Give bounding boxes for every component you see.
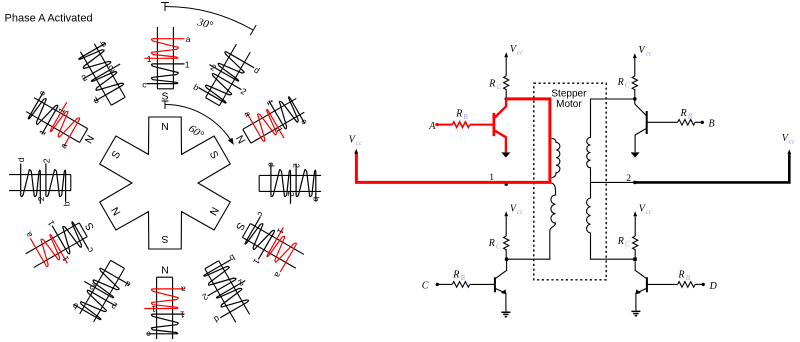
svg-text:d: d	[16, 157, 26, 162]
Vcc D	[634, 216, 636, 236]
svg-text:a: a	[186, 34, 191, 44]
Vcc B	[634, 58, 636, 76]
svg-text:B: B	[686, 274, 691, 282]
stator coil a-phase at 60 deg	[224, 87, 311, 161]
svg-text:B: B	[463, 113, 468, 121]
svg-text:A: A	[428, 121, 436, 132]
svg-text:2: 2	[292, 163, 302, 168]
svg-text:C: C	[625, 81, 630, 89]
svg-text:cc: cc	[356, 139, 363, 147]
svg-text:cc: cc	[517, 49, 524, 57]
motor winding 2 lower half	[587, 182, 636, 259]
stator coil a-phase at 240 deg	[17, 201, 106, 281]
thick red activated path: Vcc left to node 1 to collector A	[356, 99, 550, 182]
stator coil b-phase at 90 deg	[259, 162, 322, 204]
rotor (6-tooth star)	[100, 117, 231, 249]
svg-text:S: S	[161, 233, 168, 245]
svg-text:R: R	[488, 78, 495, 89]
node 2 wire	[591, 181, 635, 183]
stator coil a-phase at 180 deg	[144, 264, 186, 340]
svg-text:C: C	[422, 281, 429, 292]
transistor C	[495, 259, 506, 278]
resistor RC of C	[504, 236, 509, 250]
svg-text:b: b	[312, 197, 322, 202]
stator coil a-phase at 300 deg	[19, 87, 106, 161]
60 degree arc annotation	[165, 105, 233, 144]
svg-text:Motor: Motor	[556, 99, 582, 110]
svg-text:R: R	[455, 109, 462, 120]
stator coil b-phase at 210 deg	[69, 254, 136, 329]
node 2 junction dot	[633, 257, 637, 261]
svg-text:2: 2	[626, 174, 631, 184]
resistor RC of D	[633, 236, 638, 250]
resistor RC of B	[632, 76, 637, 90]
svg-text:B: B	[688, 112, 693, 120]
svg-text:N: N	[161, 264, 169, 276]
svg-text:C: C	[496, 83, 501, 91]
svg-text:C: C	[496, 242, 501, 250]
ground C	[501, 312, 510, 316]
transistor A (red)	[437, 124, 452, 126]
svg-text:1: 1	[180, 310, 185, 320]
svg-text:1: 1	[185, 59, 190, 69]
30 degree arc annotation	[165, 6, 253, 30]
svg-text:C: C	[625, 240, 630, 248]
svg-text:1: 1	[147, 54, 152, 64]
stator coil a-phase at 120 deg	[222, 204, 311, 284]
svg-text:2: 2	[36, 196, 46, 201]
svg-text:cc: cc	[646, 208, 653, 216]
Vcc A	[505, 57, 507, 76]
Vcc C	[505, 216, 507, 236]
svg-text:B: B	[709, 119, 715, 130]
svg-text:a: a	[181, 284, 186, 294]
motor winding 1 upper half	[552, 138, 560, 178]
svg-text:R: R	[680, 108, 687, 119]
stepper motor dashed enclosure	[534, 83, 606, 280]
svg-text:cc: cc	[646, 49, 653, 57]
svg-text:D: D	[709, 281, 718, 292]
stator coil b-phase at 330 deg	[69, 37, 136, 112]
stator coil b-phase at 150 deg	[189, 252, 263, 331]
svg-text:d: d	[266, 162, 276, 167]
svg-text:B: B	[461, 274, 466, 282]
svg-text:2: 2	[286, 192, 296, 197]
stator coil a-phase at 0 deg	[142, 27, 191, 102]
svg-text:Phase A Activated: Phase A Activated	[5, 13, 93, 25]
svg-text:R: R	[617, 77, 624, 88]
svg-text:R: R	[677, 270, 684, 281]
svg-text:R: R	[488, 238, 495, 249]
transistor D	[635, 261, 646, 279]
motor winding 1 lower half	[508, 183, 556, 259]
ground D	[631, 311, 640, 315]
stator coil b-phase at 270 deg	[9, 157, 72, 206]
svg-text:b: b	[62, 201, 72, 206]
stator coil b-phase at 30 deg	[192, 36, 266, 115]
Vcc left	[354, 149, 358, 154]
motor winding 2 upper half	[587, 99, 635, 182]
svg-text:cc: cc	[517, 208, 524, 216]
transistor B	[635, 99, 646, 115]
resistor RC of A	[504, 76, 509, 90]
svg-text:cc: cc	[789, 138, 796, 146]
svg-text:1: 1	[151, 304, 156, 314]
svg-text:2: 2	[41, 158, 51, 163]
svg-text:R: R	[452, 270, 459, 281]
svg-text:R: R	[617, 236, 624, 247]
svg-text:N: N	[161, 121, 169, 133]
